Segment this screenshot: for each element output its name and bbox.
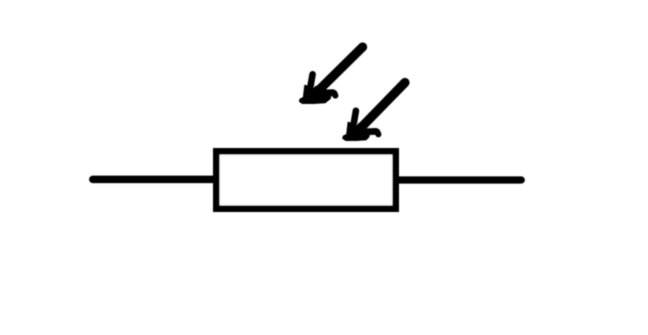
- light arrow 1 shaft: [320, 47, 363, 89]
- light arrow 2 head: [343, 111, 379, 141]
- light arrow 2 shaft: [363, 83, 405, 126]
- light arrow 1 head: [300, 74, 336, 103]
- wire left lead: [93, 176, 214, 184]
- wire right lead: [399, 176, 521, 183]
- resistor body R1: [216, 151, 395, 208]
